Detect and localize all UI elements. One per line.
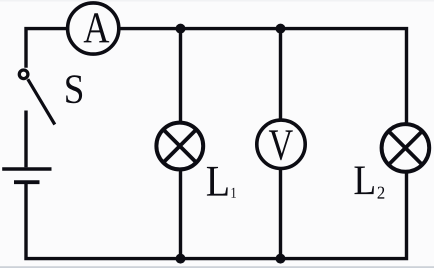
lamp L1 — [156, 123, 203, 170]
node: top junction of voltmeter branch — [276, 24, 286, 34]
lamp L2 — [382, 124, 430, 172]
wire: switch to battery segment — [24, 111, 27, 168]
voltmeter V — [257, 120, 305, 168]
label L2 — [355, 167, 385, 199]
battery cell — [2, 169, 51, 182]
label L1 — [207, 167, 236, 198]
node: bottom junction of L1 branch — [176, 254, 186, 264]
node: top junction of L1 branch — [176, 24, 186, 34]
node: bottom junction of voltmeter branch — [276, 254, 286, 264]
wire: branch of lamp L1 — [179, 29, 182, 259]
label S — [66, 75, 82, 103]
ammeter A — [68, 3, 119, 54]
wire: branch of voltmeter — [279, 29, 282, 259]
wire: outer loop (top, right, bottom, left-top and left-bottom segments) — [26, 29, 407, 259]
switch S — [19, 70, 55, 125]
